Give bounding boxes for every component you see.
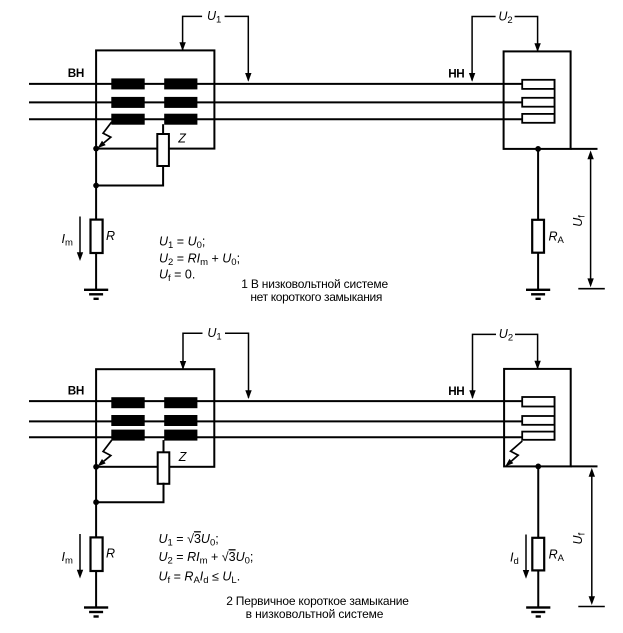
wire from secondary winding to impedance Z (circuit 1) (162, 124, 164, 135)
junction node at box corner (circuit 1) (93, 146, 99, 152)
load element 2 in LV box (circuit 2) (522, 416, 554, 425)
resistor R (circuit 1) (91, 220, 103, 253)
fault flashover arrow in LV box (circuit 2) (511, 441, 523, 461)
svg-text:НН: НН (448, 68, 464, 81)
voltage label U1 bracket (circuit 2) (183, 333, 249, 397)
LV earthing conductor (circuit 2) (537, 466, 539, 607)
transformer secondary winding bar 1 (circuit 2) (164, 397, 197, 408)
low-voltage installation box (circuit 1) (504, 51, 571, 148)
resistor RA (circuit 1) (532, 220, 544, 253)
svg-text:Im: Im (62, 550, 73, 567)
earth ground left (circuit 2) (84, 606, 108, 608)
earth ground left (circuit 1) (84, 289, 108, 291)
neutral earthing conductor (circuit 1) (95, 149, 97, 290)
resistor R (circuit 2) (91, 537, 103, 571)
transformer T1 enclosure box (circuit 1) (96, 50, 214, 148)
load element 1 in LV box (circuit 2) (522, 397, 554, 407)
svg-text:U1 = U0;: U1 = U0; (159, 235, 205, 252)
voltage label U2 bracket (circuit 2) (473, 334, 538, 397)
junction node LV box bottom (circuit 1) (535, 146, 541, 152)
transformer primary winding bar 3 (circuit 2) (111, 430, 144, 441)
svg-text:Id: Id (510, 550, 519, 567)
svg-text:R: R (106, 547, 115, 561)
LV earthing conductor (circuit 1) (537, 149, 539, 290)
wire phase L2 (circuit 2) (29, 420, 523, 422)
junction node neutral (circuit 2) (93, 499, 99, 505)
transformer secondary winding bar 2 (circuit 1) (164, 97, 197, 108)
svg-text:U2 = RIm + U0;: U2 = RIm + U0; (159, 252, 240, 269)
load element 2 in LV box (circuit 1) (522, 98, 554, 107)
svg-text:Uf: Uf (571, 532, 588, 544)
touch voltage Uf dimension ticks (circuit 1) (571, 148, 598, 150)
svg-text:2 Первичное короткое замыкание: 2 Первичное короткое замыкание (226, 594, 409, 608)
transformer primary winding bar 1 (circuit 2) (111, 397, 144, 408)
junction node at box corner (circuit 2) (93, 464, 99, 470)
wire from Z down and left to neutral (circuit 2) (96, 483, 163, 502)
flashover arrow to earthed point (circuit 2) (103, 440, 112, 461)
impedance Z (circuit 1) (157, 134, 169, 166)
svg-text:Uf = 0.: Uf = 0. (159, 268, 195, 285)
load element 1 in LV box (circuit 1) (522, 80, 554, 89)
current arrow Im (circuit 2) (79, 534, 81, 572)
wire from secondary winding to impedance Z (circuit 2) (163, 440, 165, 453)
svg-text:RA: RA (549, 547, 565, 564)
bus joining load elements (circuit 1) (554, 80, 556, 123)
svg-text:R: R (106, 229, 115, 243)
transformer T1 enclosure box (circuit 2) (96, 369, 214, 467)
svg-text:Z: Z (178, 450, 187, 464)
neutral earthing conductor (circuit 2) (95, 467, 97, 608)
wire phase L2 (circuit 1) (29, 101, 523, 103)
earth ground right (circuit 1) (526, 289, 550, 291)
svg-text:ВН: ВН (68, 384, 84, 397)
current arrow Id (circuit 2) (525, 535, 527, 572)
transformer primary winding bar 2 (circuit 1) (111, 97, 144, 108)
junction node LV box bottom (circuit 2) (535, 464, 541, 470)
wire phase L3 (circuit 1) (29, 118, 523, 120)
touch voltage Uf dimension ticks (circuit 2) (571, 465, 598, 467)
touch voltage Uf dimension arrow (circuit 1) (590, 157, 592, 281)
svg-text:RA: RA (549, 229, 565, 246)
bus joining load elements (circuit 2) (554, 397, 556, 440)
transformer primary winding bar 1 (circuit 1) (111, 78, 144, 89)
transformer secondary winding bar 1 (circuit 1) (164, 78, 197, 89)
svg-text:ВН: ВН (68, 67, 84, 80)
transformer secondary winding bar 3 (circuit 2) (164, 430, 197, 441)
svg-text:Uf = RAId ≤ UL.: Uf = RAId ≤ UL. (159, 570, 241, 587)
svg-text:в низковольтной системе: в низковольтной системе (246, 607, 384, 621)
voltage label U2 bracket (circuit 1) (472, 17, 537, 81)
wire phase L1 (circuit 2) (29, 400, 523, 402)
svg-text:НН: НН (448, 385, 464, 398)
resistor RA (circuit 2) (532, 538, 544, 571)
transformer primary winding bar 2 (circuit 2) (111, 415, 144, 426)
impedance Z (circuit 2) (158, 452, 170, 484)
svg-text:Z: Z (177, 132, 186, 146)
svg-text:1 В низковольтной системе: 1 В низковольтной системе (241, 277, 388, 291)
wire from Z down and left to neutral (circuit 1) (96, 165, 163, 186)
svg-text:нет короткого замыкания: нет короткого замыкания (250, 290, 382, 304)
junction node neutral (circuit 1) (93, 183, 99, 189)
transformer secondary winding bar 3 (circuit 1) (164, 114, 197, 125)
svg-text:Uf: Uf (571, 215, 588, 227)
wire phase L3 (circuit 2) (29, 436, 523, 438)
low-voltage installation box (circuit 2) (504, 369, 571, 467)
svg-text:U1 = √3U0;: U1 = √3U0; (159, 532, 219, 549)
load element 3 in LV box (circuit 2) (522, 432, 554, 440)
transformer primary winding bar 3 (circuit 1) (111, 114, 144, 125)
transformer secondary winding bar 2 (circuit 2) (164, 415, 197, 426)
voltage label U1 bracket (circuit 1) (183, 16, 249, 80)
touch voltage Uf dimension arrow (circuit 2) (591, 474, 593, 598)
earth ground right (circuit 2) (526, 606, 550, 608)
flashover arrow to earthed point (circuit 1) (103, 122, 112, 143)
svg-text:U2 = RIm + √3U0;: U2 = RIm + √3U0; (159, 550, 254, 567)
load element 3 in LV box (circuit 1) (522, 114, 554, 123)
current arrow Im (circuit 1) (79, 217, 81, 255)
svg-text:Im: Im (62, 232, 73, 249)
wire phase L1 (circuit 1) (29, 83, 523, 85)
